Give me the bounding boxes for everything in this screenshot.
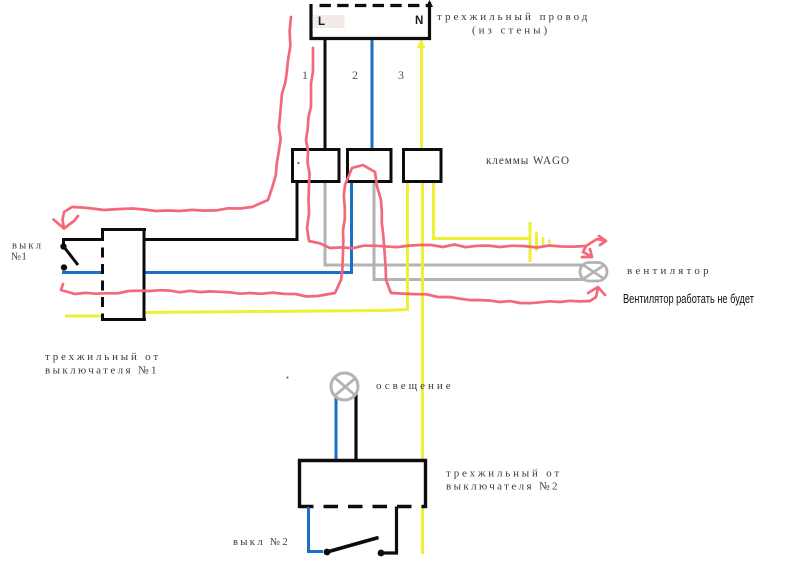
svg-text:Вентилятор работать не будет: Вентилятор работать не будет bbox=[623, 291, 754, 306]
svg-text:N: N bbox=[415, 15, 423, 27]
svg-text:1: 1 bbox=[302, 68, 308, 82]
svg-text:2: 2 bbox=[352, 68, 358, 82]
svg-text:выключателя №1: выключателя №1 bbox=[45, 365, 159, 377]
svg-text:клеммы WAGO: клеммы WAGO bbox=[486, 153, 570, 167]
svg-text:L: L bbox=[318, 16, 325, 28]
svg-text:освещение: освещение bbox=[376, 380, 454, 392]
svg-text:выключателя №2: выключателя №2 bbox=[446, 481, 560, 493]
svg-text:вентилятор: вентилятор bbox=[627, 265, 712, 277]
svg-text:(из стены): (из стены) bbox=[472, 25, 550, 37]
svg-text:выкл: выкл bbox=[12, 241, 43, 252]
svg-text:№1: №1 bbox=[11, 252, 27, 263]
svg-text:трехжильный от: трехжильный от bbox=[446, 468, 562, 480]
svg-text:трехжильный провод: трехжильный провод bbox=[437, 11, 590, 23]
svg-text:трехжильный от: трехжильный от bbox=[45, 351, 161, 363]
svg-text:3: 3 bbox=[398, 68, 404, 82]
svg-text:выкл №2: выкл №2 bbox=[233, 537, 290, 548]
